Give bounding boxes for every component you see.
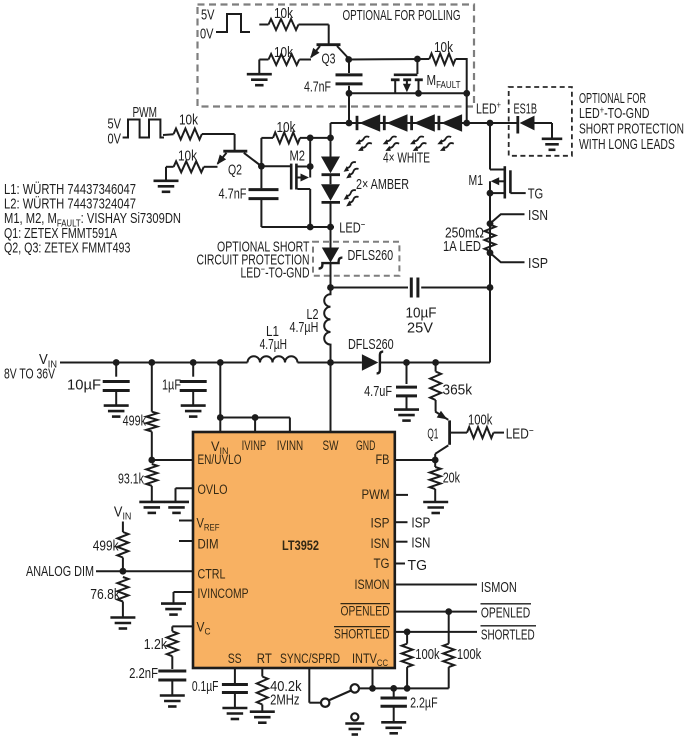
svg-text:ISN: ISN [411, 535, 430, 552]
svg-text:SHORTLED: SHORTLED [334, 626, 390, 641]
svg-text:LED−-TO-GND: LED−-TO-GND [241, 264, 310, 282]
svg-text:4.7uF: 4.7uF [364, 383, 392, 400]
svg-text:OPTIONAL FOR POLLING: OPTIONAL FOR POLLING [343, 7, 461, 24]
svg-text:499k: 499k [123, 412, 147, 429]
svg-text:5V: 5V [201, 6, 215, 23]
svg-text:25V: 25V [407, 319, 433, 336]
svg-text:IVINCOMP: IVINCOMP [198, 586, 249, 601]
svg-text:TG: TG [408, 557, 428, 574]
svg-text:SHORTLED: SHORTLED [481, 626, 535, 643]
svg-text:ISN: ISN [528, 207, 548, 224]
svg-text:2.2µF: 2.2µF [410, 695, 438, 712]
svg-text:4.7nF: 4.7nF [219, 185, 247, 202]
svg-text:ISMON: ISMON [355, 577, 390, 592]
svg-text:FB: FB [376, 452, 390, 467]
svg-text:10k: 10k [274, 5, 293, 22]
svg-text:Q3: Q3 [322, 51, 336, 68]
svg-text:10µF: 10µF [67, 377, 101, 394]
svg-text:0V: 0V [108, 130, 122, 147]
svg-text:10k: 10k [434, 39, 453, 56]
svg-text:PWM: PWM [362, 487, 390, 502]
svg-text:DIM: DIM [198, 537, 219, 552]
svg-text:1µF: 1µF [162, 377, 181, 394]
svg-text:OPENLED: OPENLED [341, 603, 390, 618]
svg-text:ISP: ISP [371, 516, 390, 531]
svg-text:Q2, Q3: ZETEX FMMT493: Q2, Q3: ZETEX FMMT493 [4, 239, 130, 256]
svg-text:0.1µF: 0.1µF [192, 678, 219, 695]
svg-text:ISMON: ISMON [481, 579, 517, 596]
svg-text:OPENLED: OPENLED [481, 604, 530, 621]
svg-text:GND: GND [356, 438, 376, 453]
svg-text:M1: M1 [469, 172, 484, 189]
svg-text:SYNC/SPRD: SYNC/SPRD [280, 651, 340, 666]
svg-text:499k: 499k [93, 537, 119, 554]
svg-text:93.1k: 93.1k [118, 470, 144, 487]
svg-text:RT: RT [257, 651, 272, 666]
svg-text:IVINN: IVINN [277, 438, 303, 453]
svg-text:ES1B: ES1B [514, 100, 538, 117]
svg-text:8V TO 36V: 8V TO 36V [4, 366, 55, 383]
svg-text:DFLS260: DFLS260 [348, 247, 394, 264]
svg-text:4.7µH: 4.7µH [260, 336, 287, 353]
svg-text:365k: 365k [443, 381, 473, 398]
svg-text:LED+-TO-GND: LED+-TO-GND [579, 105, 650, 123]
svg-text:0V: 0V [200, 25, 214, 42]
svg-text:SW: SW [323, 438, 339, 453]
svg-text:ISP: ISP [411, 514, 430, 531]
svg-text:2.2nF: 2.2nF [129, 665, 158, 682]
svg-text:EN/UVLO: EN/UVLO [198, 452, 242, 467]
svg-text:10k: 10k [179, 112, 198, 129]
svg-text:LT3952: LT3952 [282, 538, 319, 554]
svg-text:100k: 100k [468, 412, 493, 429]
svg-text:10k: 10k [178, 147, 197, 164]
svg-text:Q2: Q2 [228, 161, 242, 178]
svg-text:4.7µH: 4.7µH [290, 319, 319, 336]
svg-text:76.8k: 76.8k [90, 586, 120, 603]
svg-text:10k: 10k [277, 119, 296, 136]
svg-text:PWM: PWM [133, 104, 158, 121]
svg-text:2× AMBER: 2× AMBER [356, 176, 409, 193]
svg-text:M2: M2 [290, 147, 306, 164]
svg-text:TG: TG [374, 556, 390, 571]
svg-text:WITH LONG LEADS: WITH LONG LEADS [579, 136, 675, 153]
svg-text:TG: TG [528, 186, 544, 203]
svg-text:1.2k: 1.2k [144, 636, 168, 653]
svg-text:4.7nF: 4.7nF [304, 79, 331, 96]
svg-text:ANALOG DIM: ANALOG DIM [26, 563, 94, 580]
svg-text:Q1: Q1 [427, 426, 438, 443]
svg-text:100k: 100k [457, 646, 482, 663]
svg-text:SS: SS [228, 651, 242, 666]
svg-text:ISP: ISP [528, 255, 548, 272]
svg-text:OVLO: OVLO [198, 482, 228, 497]
svg-text:20k: 20k [443, 469, 461, 486]
svg-text:DFLS260: DFLS260 [348, 336, 394, 353]
svg-text:10k: 10k [274, 44, 293, 61]
svg-text:4× WHITE: 4× WHITE [383, 150, 430, 167]
svg-text:IVINP: IVINP [242, 438, 267, 453]
svg-text:1A LED: 1A LED [443, 238, 481, 255]
svg-text:2MHz: 2MHz [270, 692, 299, 709]
svg-text:ISN: ISN [371, 536, 390, 551]
svg-text:CTRL: CTRL [198, 567, 226, 582]
svg-text:100k: 100k [415, 646, 440, 663]
